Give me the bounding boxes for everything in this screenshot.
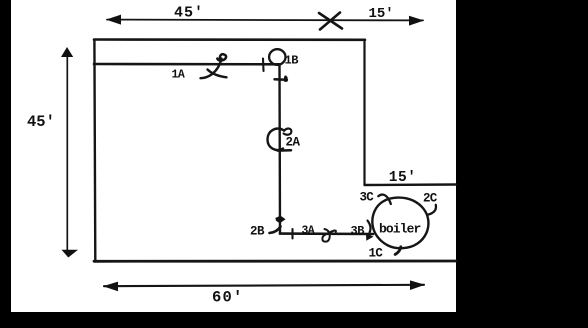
svg-text:boiler: boiler [379, 221, 421, 236]
svg-text:3B: 3B [351, 224, 365, 238]
svg-text:3C: 3C [360, 191, 375, 205]
svg-text:2A: 2A [286, 136, 301, 150]
svg-text:15': 15' [389, 170, 417, 186]
svg-text:45': 45' [174, 5, 204, 22]
svg-text:3A: 3A [302, 224, 315, 237]
svg-text:1C: 1C [369, 246, 384, 260]
svg-text:15': 15' [369, 6, 394, 22]
svg-text:1A: 1A [172, 69, 185, 82]
svg-text:1B: 1B [285, 54, 299, 68]
svg-text:2B: 2B [250, 225, 265, 239]
svg-text:60': 60' [212, 289, 244, 307]
svg-text:45': 45' [27, 113, 55, 131]
svg-text:2C: 2C [423, 192, 438, 206]
